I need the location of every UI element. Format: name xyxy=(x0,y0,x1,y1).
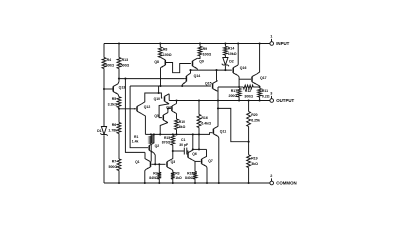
node divider tap xyxy=(248,141,250,143)
wire Q15 emitter down xyxy=(216,91,219,100)
node R11 bottom xyxy=(259,99,261,101)
wire R20 to tap xyxy=(248,127,250,155)
wire Q2 emitter down xyxy=(154,153,156,165)
wire Q10 emitter down xyxy=(159,104,169,118)
node Q4 collector on rail xyxy=(175,99,177,101)
svg-text:Q14: Q14 xyxy=(194,74,201,78)
node R10 at bus134 xyxy=(175,133,177,135)
wire R2 top lead xyxy=(158,164,160,172)
node R2 bottom xyxy=(158,182,160,184)
node Q2 emitter at base bus xyxy=(154,163,156,165)
svg-text:R14: R14 xyxy=(228,47,234,51)
svg-text:COMMON: COMMON xyxy=(276,181,297,186)
resistor R17 xyxy=(229,89,241,99)
node R16 top xyxy=(198,99,200,101)
wire R15 bottom lead xyxy=(172,145,174,151)
svg-text:R4: R4 xyxy=(107,58,112,62)
node C1 tap xyxy=(172,150,174,152)
wire R9 top lead xyxy=(199,44,201,47)
wire R8 top lead xyxy=(159,44,161,48)
node Q8 collector at bus xyxy=(159,85,161,87)
svg-text:Q17: Q17 xyxy=(260,76,267,80)
svg-text:10kΩ: 10kΩ xyxy=(228,52,237,56)
node R13 top xyxy=(118,42,120,44)
svg-text:R9: R9 xyxy=(203,47,208,51)
wire C1 to Q6 base xyxy=(187,151,188,155)
svg-text:R6: R6 xyxy=(112,123,117,127)
wire Q13 collector xyxy=(118,82,119,84)
svg-text:500Ω: 500Ω xyxy=(109,165,118,169)
wire Q14 collector up xyxy=(190,70,192,73)
node tap at Q11 collector line xyxy=(217,107,219,109)
wire R14 to D2 xyxy=(224,55,226,58)
resistor R11 xyxy=(258,89,270,99)
svg-text:Q9: Q9 xyxy=(199,60,204,64)
node Q1 emitter bottom xyxy=(144,182,146,184)
svg-text:Q10: Q10 xyxy=(154,97,161,101)
wire Q8 emitter lead xyxy=(159,56,161,58)
transistor Q10 xyxy=(154,94,170,104)
wire output rail xyxy=(169,100,270,102)
wire Q10 base to bus86 xyxy=(158,86,160,93)
wire node A to Q13 base xyxy=(104,88,113,90)
transistor Q17 xyxy=(252,74,267,84)
wire R4 to node A xyxy=(103,69,105,90)
node Q6 collector tap xyxy=(192,133,194,135)
transistor Q15 xyxy=(205,81,217,91)
wire Q6 collector to bus xyxy=(192,134,194,149)
wire Q4 emitter to R10 xyxy=(176,114,178,120)
wire Q6 emitter to node xyxy=(193,160,195,161)
wire D1 to common rail xyxy=(103,136,105,184)
wire R19 to common rail xyxy=(248,168,250,183)
transistor Q16 xyxy=(233,65,246,75)
resistor R13 xyxy=(117,58,129,69)
transistor Q12 xyxy=(134,104,150,114)
wire R18 top lead xyxy=(194,161,196,171)
capacitor C1 xyxy=(173,138,188,154)
wire Q16 collector to rail xyxy=(237,44,239,66)
zener D1 xyxy=(97,127,107,136)
svg-text:3: 3 xyxy=(270,92,272,96)
wire Q15 collector up xyxy=(216,70,219,81)
resistor R18 xyxy=(185,172,197,181)
node Q15 collector at drive xyxy=(215,69,217,71)
wire bus y134 xyxy=(145,133,212,135)
wire Q13 emitter xyxy=(118,94,119,97)
resistor R3 xyxy=(171,172,182,180)
svg-text:Q2: Q2 xyxy=(155,144,160,148)
wire drive node xyxy=(191,69,232,71)
node bus78 at column xyxy=(118,78,120,80)
svg-text:100Ω: 100Ω xyxy=(203,52,212,56)
wire node B to Q12 base xyxy=(119,108,136,110)
wire link to Q7 collector xyxy=(206,149,208,157)
svg-text:R1: R1 xyxy=(134,135,138,139)
transistor Q13 xyxy=(113,84,125,94)
wire node A to D1 xyxy=(103,89,105,127)
svg-text:R13: R13 xyxy=(122,58,128,62)
wire R18 to common rail xyxy=(194,179,196,183)
svg-text:2: 2 xyxy=(270,174,272,178)
transistor Q4 xyxy=(166,104,176,114)
transistor Q14 xyxy=(182,73,200,84)
svg-text:R5: R5 xyxy=(112,97,117,101)
wire Q9 emitter lead xyxy=(197,56,200,59)
node D2 bottom xyxy=(224,69,226,71)
node Q11 emitter bottom xyxy=(218,182,220,184)
svg-text:Q16: Q16 xyxy=(240,66,247,70)
svg-text:0.2Ω: 0.2Ω xyxy=(262,94,270,98)
svg-text:R2: R2 xyxy=(153,172,157,176)
resistor R1 xyxy=(132,135,153,144)
wire tap dogleg xyxy=(218,108,249,141)
svg-text:3kΩ: 3kΩ xyxy=(251,162,258,166)
svg-text:30 pF: 30 pF xyxy=(179,143,188,147)
transistor Q1 xyxy=(135,159,150,169)
node sense wire left xyxy=(238,86,240,88)
node R1 top xyxy=(150,133,152,135)
svg-text:R10: R10 xyxy=(179,120,185,124)
wire R7 to common rail xyxy=(118,171,120,184)
wire Q4 base lead xyxy=(168,108,171,110)
node Q14 emitter at bus xyxy=(181,85,183,87)
transistor Q6 xyxy=(188,150,197,160)
node Q6 collector at link xyxy=(192,148,194,150)
svg-text:R3: R3 xyxy=(175,172,179,176)
svg-text:Q8: Q8 xyxy=(154,60,159,64)
svg-text:6kΩ: 6kΩ xyxy=(179,125,186,129)
node divider top on rail xyxy=(248,99,250,101)
svg-text:Q1: Q1 xyxy=(135,160,140,164)
node R2 top xyxy=(158,163,160,165)
svg-text:6.4kΩ: 6.4kΩ xyxy=(201,121,211,125)
node drive node left xyxy=(189,69,191,71)
transistor Q3 xyxy=(167,159,175,169)
wire R1 to Q1 collector bar xyxy=(150,144,152,162)
wire Q2 collector up xyxy=(153,134,155,143)
svg-text:300Ω: 300Ω xyxy=(244,94,253,98)
svg-text:D2: D2 xyxy=(229,59,234,63)
node Q5 emitter tap xyxy=(159,133,161,135)
wire R5 to node B xyxy=(118,108,120,109)
resistor R5 xyxy=(108,97,121,108)
wire R16 to bus134 xyxy=(198,128,200,135)
resistor R14 xyxy=(224,46,237,56)
terminal OUTPUT pin 3 xyxy=(270,92,295,104)
resistor R9 xyxy=(198,46,211,56)
svg-text:1: 1 xyxy=(270,35,272,39)
wire sense to R12 xyxy=(239,86,243,88)
wire R3 to common rail xyxy=(172,179,174,183)
wire Q14 emitter to bus xyxy=(181,85,183,86)
svg-text:1.78k: 1.78k xyxy=(108,128,117,132)
wire common rail (bottom) xyxy=(104,182,270,184)
svg-text:6.25k: 6.25k xyxy=(251,119,260,123)
resistor R16 xyxy=(197,115,211,128)
wire Q7 base lead xyxy=(195,160,201,162)
svg-text:500Ω: 500Ω xyxy=(121,64,130,68)
wire Q12 collector over to Q10 base xyxy=(141,93,162,104)
wire node B to R6 xyxy=(118,109,120,123)
svg-text:R15: R15 xyxy=(164,136,170,140)
wire base bus y164 xyxy=(152,163,166,165)
wire R13 top lead xyxy=(118,44,120,58)
resistor R8 xyxy=(158,47,171,57)
terminal COMMON pin 2 xyxy=(270,174,297,186)
resistor R10 xyxy=(175,119,186,130)
svg-text:R18: R18 xyxy=(187,172,193,176)
svg-text:870Ω: 870Ω xyxy=(162,141,171,145)
resistor R15 xyxy=(162,136,175,146)
wire Q16 base lead xyxy=(230,69,233,71)
wire Q7 emitter down xyxy=(206,166,209,183)
svg-text:R16: R16 xyxy=(201,116,207,120)
wire Q17 emitter down xyxy=(257,84,260,87)
svg-text:R19: R19 xyxy=(251,156,257,160)
wire Q1 emitter down xyxy=(144,170,147,184)
node Q10 base tap xyxy=(158,92,160,94)
wire Q16 emitter down xyxy=(238,76,239,88)
resistor R20 xyxy=(247,112,260,127)
node B junction xyxy=(118,108,120,110)
wire Q4 collector to output rail xyxy=(176,101,178,104)
wire R16 node to link xyxy=(198,134,200,149)
svg-text:3.2kΩ: 3.2kΩ xyxy=(108,102,118,106)
wire divider top lead xyxy=(248,101,250,112)
transistor Q11 xyxy=(213,126,226,136)
wire R6 to R7 xyxy=(118,134,120,160)
wire Q10 collector to output rail xyxy=(168,94,170,101)
resistor R4 xyxy=(102,58,114,69)
wire Q17 base link xyxy=(239,78,251,80)
wire Q3 emitter down xyxy=(171,170,174,173)
svg-text:1kΩ: 1kΩ xyxy=(175,176,182,180)
wire Q11 collector up xyxy=(217,101,219,127)
terminal INPUT pin 1 xyxy=(270,35,290,47)
svg-text:100Ω: 100Ω xyxy=(163,53,172,57)
wire Q17 collector to rail xyxy=(257,44,260,75)
svg-text:Q3: Q3 xyxy=(171,160,176,164)
wire Q12 emitter down xyxy=(141,114,145,135)
wire Q1 collector up xyxy=(144,152,147,159)
wire link y149 xyxy=(193,148,207,150)
node Q17 collector top xyxy=(259,42,261,44)
node R18 bottom xyxy=(194,182,196,184)
svg-text:1.4k: 1.4k xyxy=(132,139,139,143)
node A junction xyxy=(103,88,105,90)
node bus78 tap x125 xyxy=(124,78,126,80)
svg-text:R7: R7 xyxy=(112,160,117,164)
svg-text:Q15: Q15 xyxy=(205,81,212,85)
transistor Q7 xyxy=(202,156,213,166)
wire Q9 collector joins drive xyxy=(196,69,198,71)
node R16 at bus134 xyxy=(198,133,200,135)
wire vertical x130.1 xyxy=(130,86,148,148)
transistor Q2 xyxy=(149,143,159,153)
svg-text:840Ω: 840Ω xyxy=(185,176,194,180)
wire Q15 emitter sense xyxy=(218,86,239,88)
svg-text:Q13: Q13 xyxy=(119,85,126,89)
node Q16 collector top xyxy=(237,42,239,44)
svg-text:R17: R17 xyxy=(231,89,237,93)
wire Q6 collector up xyxy=(192,148,194,151)
resistor R12 xyxy=(243,85,253,98)
wire Q8 collector down xyxy=(160,68,162,86)
wire left column upper xyxy=(103,44,105,58)
node R3 bottom xyxy=(172,182,174,184)
svg-text:C1: C1 xyxy=(181,138,185,142)
svg-text:Q7: Q7 xyxy=(208,159,213,163)
node R8 top xyxy=(159,42,161,44)
resistor R19 xyxy=(247,155,258,168)
transistor Q8 xyxy=(154,57,165,67)
svg-text:Q12: Q12 xyxy=(144,105,151,109)
svg-text:Q5: Q5 xyxy=(154,114,159,118)
zener D2 xyxy=(222,58,234,67)
wire R10 to bus134 xyxy=(176,130,178,135)
wire Q5 emitter down xyxy=(160,123,168,135)
node Q7 emitter bottom xyxy=(206,182,208,184)
wire bus y86 xyxy=(130,85,184,87)
transistor Q9 xyxy=(193,58,204,68)
wire R13 to Q13 collector xyxy=(118,69,120,82)
wire Q15 emitter to sense xyxy=(217,87,219,91)
resistor R6 xyxy=(108,123,120,134)
wire Q8-Q9 base link xyxy=(165,63,191,73)
wire R11 to output rail xyxy=(259,97,261,101)
node R15 top xyxy=(172,133,174,135)
svg-text:R8: R8 xyxy=(163,48,168,52)
wire Q3 collector up xyxy=(171,151,174,159)
node R9 top xyxy=(199,42,201,44)
wire input rail (top) xyxy=(104,43,270,45)
wire vertical x125.4 xyxy=(125,79,144,153)
wire Q15 base lead xyxy=(184,85,211,87)
node R19 bottom xyxy=(248,182,250,184)
node R7 bottom xyxy=(118,182,120,184)
svg-text:Q11: Q11 xyxy=(220,129,226,133)
svg-text:200Ω: 200Ω xyxy=(229,94,238,98)
wire D2 to drive node xyxy=(224,66,226,70)
svg-text:R12: R12 xyxy=(245,89,251,93)
svg-text:Q6: Q6 xyxy=(192,152,197,156)
wire Q9 collector down xyxy=(196,69,198,70)
wire R17 to output rail xyxy=(238,97,240,101)
svg-text:R20: R20 xyxy=(251,113,257,117)
wire R2 to common rail xyxy=(158,179,160,183)
node Q2 collector tap2 xyxy=(153,133,155,135)
node Q15 emitter on rail xyxy=(217,99,219,101)
node R16 at link xyxy=(198,148,200,150)
wire R12 to Q17 emitter xyxy=(253,86,259,88)
node Q5 collector at Q4 base xyxy=(167,107,169,109)
wire R14 top lead xyxy=(224,44,226,47)
svg-text:OUTPUT: OUTPUT xyxy=(276,98,294,103)
resistor R7 xyxy=(109,159,121,171)
resistor R2 xyxy=(149,172,161,180)
wire R16 top lead xyxy=(198,101,200,115)
svg-text:INPUT: INPUT xyxy=(276,41,289,46)
node R17 bottom xyxy=(238,99,240,101)
node Q17 emitter junction xyxy=(259,86,261,88)
svg-text:R11: R11 xyxy=(262,89,268,93)
wire Q11 emitter down xyxy=(217,136,220,183)
transistor Q5 xyxy=(154,113,168,123)
svg-text:D1: D1 xyxy=(97,129,102,133)
wire Q13 collector bus xyxy=(119,78,184,80)
wire Q5 collector up xyxy=(167,109,169,113)
svg-text:300Ω: 300Ω xyxy=(105,64,114,68)
svg-text:840Ω: 840Ω xyxy=(149,176,158,180)
node R14 top xyxy=(224,42,226,44)
